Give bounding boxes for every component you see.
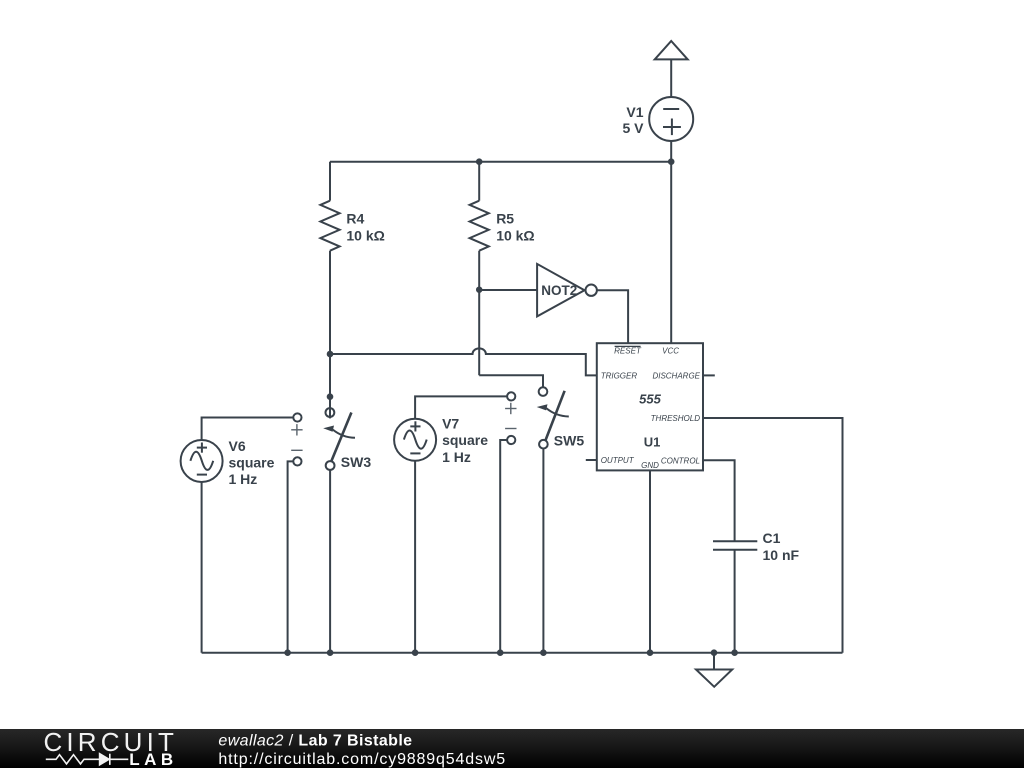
svg-text:http://circuitlab.com/cy9889q5: http://circuitlab.com/cy9889q54dsw5 [218, 751, 506, 768]
svg-text:5 V: 5 V [622, 120, 644, 136]
wire [478, 290, 480, 376]
node junction [327, 393, 334, 400]
node junction [497, 649, 504, 656]
svg-text:CONTROL: CONTROL [661, 457, 700, 466]
wire [597, 290, 628, 343]
plus mark [505, 403, 516, 414]
wire (SW5 bottom lead) [542, 449, 544, 653]
svg-text:SW3: SW3 [341, 454, 372, 470]
node junction [540, 649, 547, 656]
node junction [731, 649, 738, 656]
pin RESET overline [615, 345, 641, 347]
wire (SW3 bottom lead) [329, 470, 331, 653]
wire (V7 bottom lead) [414, 461, 416, 653]
svg-text:1 Hz: 1 Hz [442, 449, 471, 465]
svg-text:10 kΩ: 10 kΩ [346, 227, 384, 243]
logo resistor-diode squiggle [46, 754, 129, 765]
wire [670, 59, 672, 97]
svg-text:square: square [442, 432, 488, 448]
wire (top rail) [330, 161, 671, 163]
voltage source V1 [649, 97, 693, 141]
switch SW3 [323, 408, 355, 470]
svg-text:LAB: LAB [129, 750, 177, 768]
node junction [284, 649, 291, 656]
wire (V6 plus lead) [202, 418, 294, 441]
svg-text:NOT2: NOT2 [541, 283, 577, 298]
voltage source V7 [394, 419, 436, 461]
wire (V7 minus lead) [500, 440, 507, 653]
wire (control net) [703, 460, 735, 541]
svg-text:555: 555 [639, 391, 661, 406]
terminal [507, 392, 515, 400]
wire (bottom bus) [202, 652, 843, 654]
svg-text:V7: V7 [442, 416, 459, 432]
pin OUTPUT stub [586, 459, 597, 461]
svg-text:R4: R4 [346, 211, 364, 227]
svg-text:ewallac2 / Lab 7 Bistable: ewallac2 / Lab 7 Bistable [218, 733, 412, 750]
svg-text:V1: V1 [626, 104, 643, 120]
terminal [507, 436, 515, 444]
node junction [668, 158, 675, 165]
svg-text:SW5: SW5 [554, 433, 585, 449]
node junction [327, 649, 334, 656]
svg-text:square: square [229, 455, 275, 471]
svg-text:R5: R5 [496, 211, 514, 227]
svg-text:U1: U1 [644, 434, 661, 449]
svg-text:10 kΩ: 10 kΩ [496, 227, 534, 243]
wire (555 GND) [649, 470, 651, 652]
node junction [476, 158, 483, 165]
terminal [293, 457, 301, 465]
svg-text:GND: GND [641, 461, 659, 470]
svg-text:OUTPUT: OUTPUT [601, 456, 635, 465]
IC U1 555 [597, 343, 703, 470]
power flag VCC (top) [655, 41, 688, 59]
ground symbol [696, 649, 732, 686]
terminal [293, 413, 301, 421]
switch SW5 [537, 387, 569, 448]
svg-text:VCC: VCC [662, 347, 679, 356]
svg-text:V6: V6 [229, 438, 246, 454]
svg-text:RESET: RESET [614, 347, 642, 356]
wire (SW3 top lead) [329, 354, 331, 418]
plus mark [291, 424, 302, 435]
wire (SW5 feed) [479, 375, 543, 387]
pin DISCHARGE stub [703, 374, 715, 376]
wire (V6 minus lead) [288, 461, 294, 652]
svg-text:TRIGGER: TRIGGER [601, 372, 638, 381]
wire [479, 289, 537, 291]
voltage source V6 [181, 440, 223, 653]
svg-text:10 nF: 10 nF [763, 547, 800, 563]
wire (threshold net) [703, 418, 843, 653]
footer bar [0, 729, 1024, 768]
svg-text:C1: C1 [763, 530, 781, 546]
wire [670, 141, 672, 344]
node junction [647, 649, 654, 656]
wire (V7 plus lead) [415, 396, 507, 418]
svg-text:THRESHOLD: THRESHOLD [651, 414, 701, 423]
resistor R4 [320, 162, 339, 354]
capacitor C1 [713, 541, 757, 653]
resistor R5 [470, 162, 489, 290]
node junction [327, 351, 334, 358]
svg-text:1 Hz: 1 Hz [229, 471, 258, 487]
minus mark [291, 449, 302, 451]
svg-text:DISCHARGE: DISCHARGE [652, 372, 700, 381]
node junction [476, 287, 482, 293]
node junction [412, 649, 419, 656]
wire (trigger net) [330, 348, 597, 375]
inverter NOT2 [537, 264, 597, 317]
minus mark [505, 428, 516, 430]
